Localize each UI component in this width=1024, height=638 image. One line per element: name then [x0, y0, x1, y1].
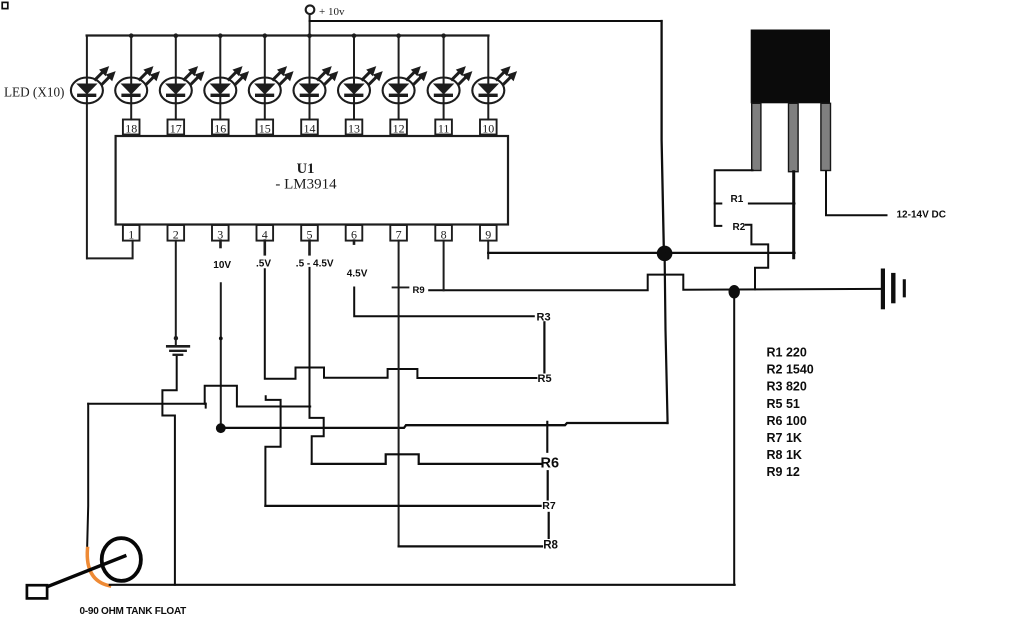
orange pivot arc of float [87, 549, 109, 586]
wire R1 to leg2 column [749, 203, 795, 205]
tick on pin3 column [219, 337, 223, 341]
wire LED2 column [130, 36, 132, 120]
svg-text:17: 17 [170, 121, 182, 135]
wire LED5 column [264, 36, 266, 120]
pin box 1 [123, 225, 140, 241]
svg-text:18: 18 [125, 121, 137, 135]
wire LED3 column [175, 36, 177, 120]
LED D8 [383, 67, 427, 103]
tank float body circle [102, 538, 141, 581]
LED D1 [71, 67, 115, 103]
svg-text:- LM3914: - LM3914 [275, 177, 337, 193]
svg-text:.5V: .5V [256, 258, 271, 269]
pin box 8 [435, 225, 452, 241]
pin box 17 [168, 120, 185, 135]
junction dot on bus at LED9 [441, 33, 446, 38]
svg-text:9: 9 [485, 227, 491, 241]
svg-text:.5 - 4.5V: .5 - 4.5V [296, 258, 334, 269]
pin box 5 [301, 225, 318, 241]
wire LED1 column (bus to pin1 row) [86, 36, 88, 259]
svg-text:7: 7 [396, 227, 402, 241]
wire float wiper down left side [87, 404, 88, 550]
svg-text:R1 220: R1 220 [767, 346, 807, 360]
svg-text:+ 10v: + 10v [319, 6, 345, 18]
wire LED6 column [309, 36, 311, 120]
svg-text:R7: R7 [542, 500, 556, 512]
regulator leg 2 [789, 103, 799, 171]
LED D3 [160, 67, 204, 103]
svg-text:R8: R8 [543, 540, 558, 552]
svg-text:R8 1K: R8 1K [767, 448, 802, 462]
junction node A (big dot) [657, 246, 673, 262]
wire node A down to 10V rail [665, 253, 668, 423]
wire leg2 down [792, 172, 795, 258]
wire R6 line with bridge jog [312, 454, 542, 464]
svg-text:0-90 OHM TANK FLOAT: 0-90 OHM TANK FLOAT [80, 606, 187, 617]
wire pin5 signal input down [308, 241, 311, 255]
wire R7 line [265, 505, 540, 507]
LED D6 [294, 67, 338, 103]
wire R8 line from pin7 column [399, 545, 542, 547]
pin box 7 [390, 225, 407, 241]
svg-text:R3 820: R3 820 [767, 380, 807, 394]
svg-text:4: 4 [262, 227, 268, 241]
wire bottom return line [110, 584, 735, 586]
float needle arm [48, 556, 125, 587]
junction node B (small dot) [729, 285, 740, 298]
junction dot on bus at LED7 [352, 33, 357, 38]
svg-text:14: 14 [304, 121, 316, 135]
svg-text:2: 2 [173, 227, 179, 241]
wire LED anode bus [87, 34, 489, 36]
wire R6 chain tap to 10V rail [546, 422, 548, 452]
pin box 10 [480, 120, 497, 135]
wire leg3 to 12-14V DC input [826, 172, 887, 216]
svg-text:R9 12: R9 12 [767, 465, 800, 479]
voltage regulator body [751, 30, 830, 104]
svg-text:U1: U1 [297, 161, 315, 177]
op-amp U1 LM3914 IC body [116, 136, 508, 225]
wire LED9 column [443, 36, 445, 120]
pin box 2 [168, 225, 185, 241]
resistor R6-R7 connector [547, 471, 549, 499]
svg-text:10V: 10V [213, 260, 231, 271]
LED D4 [204, 67, 248, 103]
pin box 9 [480, 225, 497, 241]
svg-text:R5: R5 [538, 373, 552, 385]
small open square marker top-left [2, 2, 8, 8]
wire tick at end [205, 404, 207, 408]
svg-text:4.5V: 4.5V [347, 269, 368, 280]
svg-text:R6: R6 [541, 456, 560, 472]
pin box 6 [346, 225, 363, 241]
svg-text:11: 11 [438, 121, 450, 135]
junction dot on bus at LED5 [263, 33, 268, 38]
wire pin8 down to R9 line [443, 241, 445, 291]
wire +10v rail to right [310, 20, 662, 22]
LED D5 [249, 67, 293, 103]
LED D9 [428, 67, 472, 103]
junction dot above ground [174, 336, 178, 340]
LED D7 [338, 67, 382, 103]
wire R9 stub at pin7 [393, 286, 409, 288]
wire pin6 down to R3 [353, 241, 356, 244]
svg-text:1: 1 [128, 227, 134, 241]
pin box 15 [257, 120, 274, 135]
svg-text:R2 1540: R2 1540 [767, 363, 814, 377]
pin box 16 [212, 120, 229, 135]
LED D2 [115, 67, 159, 103]
wire from node B down to bottom return [733, 298, 735, 585]
svg-text:15: 15 [259, 121, 271, 135]
regulator leg 1 [752, 103, 761, 170]
junction dot on bus at LED4 [218, 33, 223, 38]
ground symbol (right rail) [883, 271, 904, 308]
junction dot on bus at LED8 [396, 33, 401, 38]
pin box 13 [346, 120, 363, 135]
wire 10V rail to node A column [226, 423, 668, 428]
svg-text:R2: R2 [733, 222, 746, 233]
wire pin7 long vertical down to R8 line [398, 241, 400, 547]
wire LED10 column [487, 36, 489, 120]
wire float wiper horizontal [88, 403, 206, 405]
junction dot on bus at LED2 [129, 33, 134, 38]
svg-text:16: 16 [214, 121, 226, 135]
float terminal square [27, 585, 47, 598]
wire +10v node to bus column [309, 14, 311, 35]
wire R9 to right ground rail [429, 275, 881, 291]
svg-text:LED (X10): LED (X10) [4, 84, 64, 99]
wire R2 left branch [715, 204, 722, 226]
pin box 11 [435, 120, 452, 135]
pin box 3 [212, 225, 229, 241]
svg-text:6: 6 [351, 227, 357, 241]
resistor R3-R5 connector [543, 322, 545, 372]
junction dot 10V node [216, 423, 226, 433]
wire ground tail down to tank float line [162, 357, 176, 585]
wire leg1 to R1 branch [715, 170, 753, 203]
svg-text:R7 1K: R7 1K [767, 431, 802, 445]
svg-text:3: 3 [217, 227, 223, 241]
svg-text:R5 51: R5 51 [767, 397, 800, 411]
wire pin2 down to ground [175, 241, 177, 346]
pin box 18 [123, 120, 140, 135]
wire R7 left branch with jogs [265, 396, 280, 506]
svg-text:R6 100: R6 100 [767, 414, 807, 428]
wire pin3 down to 10V node [219, 241, 222, 247]
svg-text:13: 13 [348, 121, 360, 135]
pin box 12 [390, 120, 407, 135]
pin box 4 [257, 225, 274, 241]
wire R2 hook down to ground rail [746, 225, 768, 290]
svg-text:10: 10 [482, 121, 494, 135]
svg-text:8: 8 [441, 227, 447, 241]
svg-text:5: 5 [307, 227, 313, 241]
regulator leg 3 [821, 103, 831, 170]
wire pin4 (ref out) with jogs to R5 [263, 241, 266, 255]
wire down from +10v rail to node A [662, 21, 664, 253]
wire pin9 to node A [487, 241, 489, 259]
svg-text:12: 12 [393, 121, 405, 135]
svg-text:12-14V DC: 12-14V DC [897, 209, 946, 220]
wire LED8 column [398, 36, 400, 120]
LED D10 [472, 67, 516, 103]
wire LED7 column [353, 36, 355, 120]
svg-text:R9: R9 [413, 285, 425, 296]
ground symbol (pin 2) [167, 346, 189, 355]
wire LED4 column [219, 36, 221, 120]
svg-text:R1: R1 [731, 194, 744, 205]
pin box 14 [301, 120, 318, 135]
node +10v terminal circle [306, 5, 315, 14]
junction dot on bus at LED3 [174, 33, 179, 38]
junction dot on bus at LED6 [307, 33, 312, 38]
wire staircase jog to pin5 column [205, 386, 311, 407]
wire pin1 to LED1 column [87, 241, 133, 259]
resistor R7-R8 connector [548, 513, 550, 538]
